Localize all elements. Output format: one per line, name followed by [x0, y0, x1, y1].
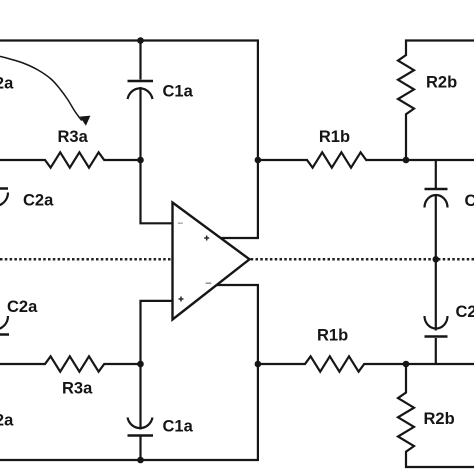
svg-text:C1a: C1a	[163, 418, 194, 436]
svg-text:C2a: C2a	[23, 192, 54, 210]
svg-text:R1b: R1b	[319, 128, 350, 146]
svg-text:R3a: R3a	[62, 379, 93, 397]
svg-text:C2b: C2b	[465, 192, 474, 210]
svg-text:C2b: C2b	[456, 303, 474, 321]
svg-text:R3a: R3a	[58, 128, 89, 146]
svg-text:R2b: R2b	[426, 74, 457, 92]
svg-text:C2a: C2a	[7, 298, 38, 316]
svg-text:R2a: R2a	[0, 75, 14, 93]
svg-text:R1b: R1b	[317, 327, 348, 345]
svg-text:C1a: C1a	[163, 83, 194, 101]
svg-text:R2a: R2a	[0, 412, 14, 430]
svg-text:R2b: R2b	[424, 410, 455, 428]
